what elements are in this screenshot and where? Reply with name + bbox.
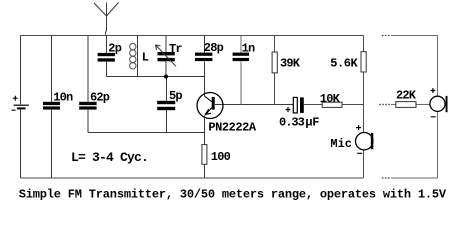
capacitor 5p (157, 101, 175, 110)
svg-text:0.33: 0.33 (279, 115, 305, 129)
wire top bus V+ (21, 35, 364, 37)
wire trimmer bottom to node (165, 62, 167, 77)
wire 10K to 5.6K junction (342, 104, 364, 106)
wire 39K top (274, 36, 276, 53)
battery B1 (12, 96, 29, 110)
svg-text:2p: 2p (108, 42, 121, 56)
wire left rail bottom (battery to ground rail) (20, 109, 22, 178)
wire right branch top (391, 36, 438, 97)
wire 10n top (51, 36, 53, 102)
wire emitter down (204, 116, 206, 145)
svg-text:22K: 22K (396, 89, 417, 103)
microphone Mic (356, 125, 374, 153)
svg-text:5.6K: 5.6K (330, 57, 358, 71)
wire 22K left stub (391, 104, 396, 106)
resistor 5.6K (361, 52, 366, 72)
emitter arrow (205, 109, 211, 114)
capacitor 1n (233, 53, 249, 62)
wire feedback (62p / 5p / emitter) (88, 132, 205, 134)
wire 28p top (204, 36, 206, 53)
svg-text:62p: 62p (90, 91, 110, 105)
svg-text:PN2222A: PN2222A (208, 120, 257, 134)
dots bottom gap (382, 177, 390, 179)
svg-text:100: 100 (211, 150, 231, 164)
junction node (trimmer / tank / 5p) (164, 75, 168, 79)
capacitor 10n (43, 102, 60, 110)
svg-text:Simple FM Transmitter, 30/50 m: Simple FM Transmitter, 30/50 meters rang… (19, 187, 447, 201)
svg-text:µF: µF (305, 115, 319, 129)
wire 5.6K bottom to mic (363, 72, 365, 132)
transistor Q1 PN2222A (197, 93, 223, 119)
wire trimmer top (165, 36, 167, 52)
svg-text:39K: 39K (280, 57, 301, 71)
wire bottom ground rail (21, 177, 364, 179)
svg-text:L: L (142, 50, 149, 64)
wire 39K bottom to base (274, 73, 276, 105)
wire tank bottom (2p to collector node) (107, 76, 205, 78)
wire 0.33uF to 10K (304, 104, 322, 106)
svg-text:10K: 10K (320, 92, 341, 106)
wire 62p bottom to feedback node (87, 110, 89, 133)
wire 5p bottom (166, 110, 168, 132)
dots top gap (382, 35, 390, 37)
wire base (transistor to 0.33uF) (215, 104, 293, 106)
capacitor 62p (79, 102, 96, 110)
wire 5.6K top from bus (363, 36, 365, 52)
wire mic bottom to ground (363, 150, 365, 178)
wire collector (28p bottom through tank node to transistor) (204, 62, 206, 97)
wire right branch bottom (391, 112, 438, 178)
wire 1n bottom to base (240, 62, 242, 105)
capacitor 2p (98, 53, 115, 62)
wire 1n top (240, 36, 242, 53)
svg-text:L= 3-4 Cyc.: L= 3-4 Cyc. (71, 150, 148, 165)
wire 2p bottom (106, 62, 108, 77)
resistor 22K (396, 102, 416, 108)
svg-text:Tr: Tr (169, 42, 182, 56)
wire left rail top (battery to bus) (20, 36, 22, 105)
trimmer capacitor Tr (158, 52, 175, 61)
right external microphone (430, 88, 448, 117)
wire emitter to ground (204, 164, 206, 178)
svg-text:Mic: Mic (330, 137, 352, 151)
resistor 39K (272, 52, 277, 73)
wire inductor branch (137, 36, 139, 77)
wire 62p top (87, 36, 89, 102)
inductor L (130, 43, 136, 69)
dots mid gap (379, 104, 390, 106)
wire 5p top (166, 77, 168, 101)
svg-text:1n: 1n (242, 41, 255, 55)
svg-text:28p: 28p (204, 41, 224, 55)
wire 22K to right mic (416, 104, 430, 106)
capacitor 0.33uF electrolytic (286, 97, 304, 113)
capacitor 28p (195, 53, 212, 62)
antenna (94, 3, 119, 54)
svg-text:10n: 10n (53, 91, 73, 105)
wire 10n bottom (51, 110, 53, 178)
svg-text:5p: 5p (169, 89, 182, 103)
resistor 100 (202, 145, 207, 165)
resistor 10K (322, 102, 342, 107)
